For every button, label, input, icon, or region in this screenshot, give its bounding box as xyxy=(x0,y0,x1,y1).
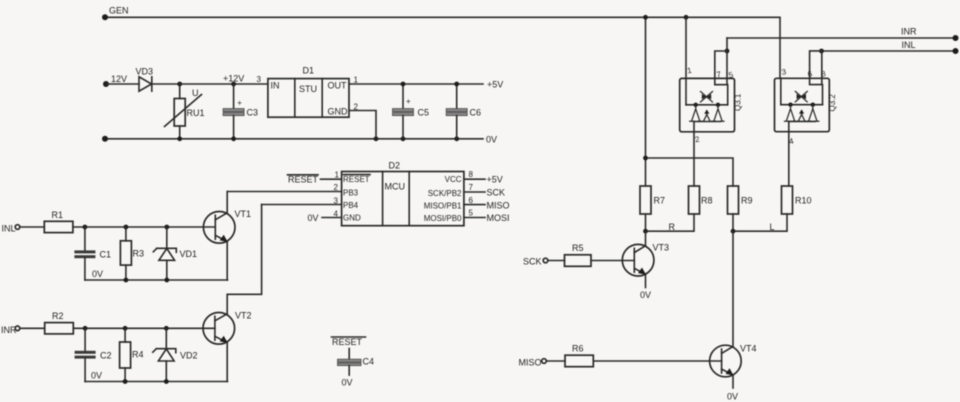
svg-text:Q3.1: Q3.1 xyxy=(734,93,743,111)
svg-text:7: 7 xyxy=(469,183,474,192)
svg-text:VT2: VT2 xyxy=(235,311,252,321)
svg-text:L: L xyxy=(770,222,775,232)
svg-text:MCU: MCU xyxy=(385,182,406,192)
svg-text:+12V: +12V xyxy=(223,74,244,84)
svg-text:STU: STU xyxy=(299,84,317,94)
svg-text:0V: 0V xyxy=(308,213,319,223)
svg-text:+5V: +5V xyxy=(487,175,503,185)
svg-text:8: 8 xyxy=(469,170,474,179)
svg-text:+5V: +5V xyxy=(487,80,503,90)
svg-text:RU1: RU1 xyxy=(187,108,205,118)
svg-text:INR: INR xyxy=(1,325,17,335)
svg-text:VD2: VD2 xyxy=(180,351,198,361)
svg-text:INL: INL xyxy=(902,40,916,50)
svg-text:IN: IN xyxy=(271,81,280,91)
svg-text:INR: INR xyxy=(901,27,917,37)
svg-text:MOSI: MOSI xyxy=(487,213,510,223)
svg-text:2: 2 xyxy=(334,183,339,192)
svg-text:OUT: OUT xyxy=(328,81,348,91)
svg-text:RESET: RESET xyxy=(288,175,319,185)
svg-text:RESET: RESET xyxy=(343,175,370,184)
svg-text:0V: 0V xyxy=(92,269,103,279)
svg-text:4: 4 xyxy=(334,210,339,219)
svg-text:1: 1 xyxy=(335,171,340,180)
svg-text:VT4: VT4 xyxy=(740,344,757,354)
svg-text:R3: R3 xyxy=(133,249,145,259)
svg-text:0V: 0V xyxy=(640,290,651,300)
svg-text:PB4: PB4 xyxy=(343,201,359,210)
svg-text:MISO: MISO xyxy=(487,201,510,211)
svg-text:0V: 0V xyxy=(91,371,102,381)
svg-text:R8: R8 xyxy=(701,196,713,206)
svg-text:U: U xyxy=(192,88,199,98)
svg-text:SCK: SCK xyxy=(523,257,542,267)
svg-text:5: 5 xyxy=(469,209,474,218)
svg-text:0V: 0V xyxy=(486,135,497,145)
svg-text:GND: GND xyxy=(343,214,361,223)
svg-text:+: + xyxy=(406,97,411,106)
svg-text:R1: R1 xyxy=(52,210,64,220)
svg-text:VT1: VT1 xyxy=(235,209,252,219)
svg-text:C6: C6 xyxy=(470,108,482,118)
svg-text:RESET: RESET xyxy=(332,337,363,347)
svg-text:GEN: GEN xyxy=(109,6,129,16)
svg-text:Q3.2: Q3.2 xyxy=(828,94,837,112)
svg-text:R9: R9 xyxy=(741,196,753,206)
svg-text:R5: R5 xyxy=(572,243,584,253)
svg-text:R10: R10 xyxy=(795,196,812,206)
svg-text:VCC: VCC xyxy=(445,175,462,184)
svg-text:INL: INL xyxy=(2,224,16,234)
svg-text:0V: 0V xyxy=(727,392,738,402)
svg-text:C1: C1 xyxy=(100,250,112,260)
svg-text:VD1: VD1 xyxy=(180,249,198,259)
svg-text:R: R xyxy=(669,222,676,232)
svg-text:+: + xyxy=(237,99,242,108)
svg-text:C5: C5 xyxy=(418,108,430,118)
svg-text:1: 1 xyxy=(354,76,359,85)
svg-text:12V: 12V xyxy=(111,74,127,84)
svg-text:GND: GND xyxy=(328,107,349,117)
svg-text:VD3: VD3 xyxy=(136,67,154,77)
svg-text:C3: C3 xyxy=(247,108,259,118)
svg-text:3: 3 xyxy=(257,75,262,84)
svg-text:0V: 0V xyxy=(342,378,353,388)
svg-text:D1: D1 xyxy=(303,66,315,76)
svg-text:R6: R6 xyxy=(572,344,584,354)
svg-text:R7: R7 xyxy=(654,196,666,206)
svg-text:VT3: VT3 xyxy=(653,243,670,253)
svg-text:R4: R4 xyxy=(132,350,144,360)
svg-text:R2: R2 xyxy=(52,311,64,321)
svg-text:SCK: SCK xyxy=(487,188,506,198)
svg-text:6: 6 xyxy=(469,196,474,205)
svg-text:SCK/PB2: SCK/PB2 xyxy=(428,189,462,198)
svg-text:3: 3 xyxy=(334,197,339,206)
svg-text:PB3: PB3 xyxy=(343,189,359,198)
svg-text:MISO: MISO xyxy=(519,358,542,368)
svg-text:C4: C4 xyxy=(363,357,375,367)
svg-text:D2: D2 xyxy=(389,161,401,171)
svg-text:MISO/PB1: MISO/PB1 xyxy=(424,202,462,211)
svg-text:C2: C2 xyxy=(100,351,112,361)
svg-text:MOSI/PB0: MOSI/PB0 xyxy=(424,214,462,223)
